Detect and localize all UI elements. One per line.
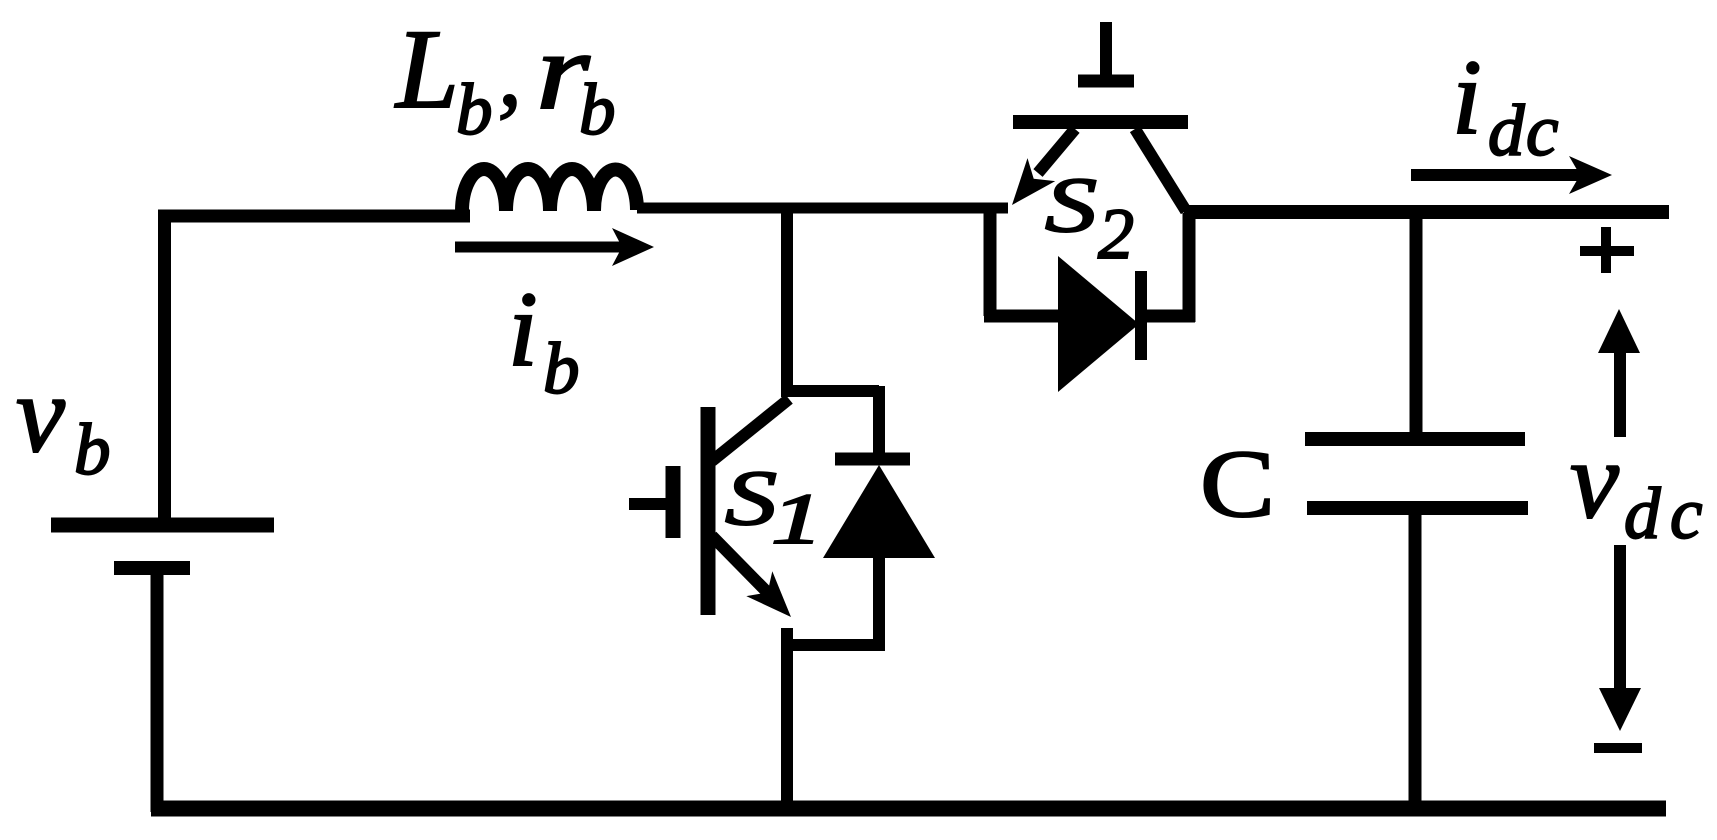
transistor S1 collector diagonal [712, 399, 789, 461]
arrow v_dc up (head) [1598, 309, 1640, 353]
diode D1 bottom lead [873, 554, 885, 651]
arrow v_dc down (shaft) [1614, 545, 1626, 693]
wire bottom rail [151, 801, 1666, 817]
label i_b [508, 271, 580, 409]
diode D2 right lead vertical [1183, 213, 1196, 322]
label v_b [16, 353, 111, 490]
transistor S1 body bar [701, 407, 716, 615]
capacitor C top lead [1410, 213, 1423, 439]
label v_dc [1570, 419, 1702, 554]
label C [1200, 430, 1275, 537]
svg-text:d: d [1488, 90, 1525, 171]
transistor S2 gate bar [1078, 75, 1134, 88]
transistor S1 gate lead [629, 498, 667, 510]
diode D1 cathode bar [835, 453, 910, 466]
arrow v_dc up (shaft) [1614, 348, 1626, 437]
capacitor C bottom plate [1307, 501, 1528, 515]
wire S1 bottom jog [781, 639, 885, 651]
transistor S1 gate bar [666, 466, 681, 538]
svg-text:b: b [579, 69, 616, 150]
diode D2 bottom horizontal right [1141, 310, 1195, 323]
diode D1 triangle [823, 465, 935, 558]
wire S2 to top-right [1184, 205, 1669, 219]
capacitor C bottom lead [1409, 508, 1422, 812]
label L_b, r_b [394, 7, 616, 150]
arrow i_dc (shaft) [1411, 169, 1582, 181]
inductor L_b coil [462, 169, 637, 211]
svg-text:i: i [1452, 39, 1482, 157]
svg-text:v: v [1570, 419, 1619, 541]
arrow i_b (head) [612, 228, 654, 266]
battery v_b long plate (+) [51, 518, 274, 533]
wire inductor to S2 [637, 203, 1008, 214]
svg-text:v: v [16, 353, 65, 475]
label i_dc [1452, 39, 1558, 171]
svg-text:2: 2 [1098, 194, 1134, 274]
transistor S2 collector diagonal [1135, 129, 1186, 211]
arrow i_b (shaft) [455, 242, 624, 253]
svg-text:C: C [1200, 430, 1275, 537]
transistor S2 emitter arrowhead [1012, 158, 1055, 205]
svg-text:c: c [1670, 473, 1702, 554]
svg-text:b: b [456, 69, 493, 150]
wire S1 emitter vertical to bottom rail [781, 628, 793, 812]
wire left vertical (battery positive lead) [158, 210, 171, 518]
svg-text:S: S [1045, 161, 1097, 248]
wire battery negative lead down [151, 568, 164, 812]
diode D2 bottom horizontal left [984, 310, 1058, 323]
svg-text:S: S [725, 454, 777, 541]
svg-text:b: b [543, 328, 580, 409]
wire S1 collector branch vertical [781, 213, 793, 396]
battery v_b short plate (-) [114, 561, 190, 575]
wire S1 top jog to diode [781, 385, 879, 397]
minus sign [1594, 743, 1642, 753]
wire top-left horizontal (battery + to inductor) [158, 210, 470, 223]
svg-text:d: d [1624, 473, 1661, 554]
transistor S1 emitter diagonal [712, 536, 770, 595]
label S2 [1045, 161, 1134, 274]
label S1 [725, 454, 823, 559]
diode D2 triangle [1058, 256, 1139, 392]
diode D2 left lead vertical [984, 207, 997, 316]
transistor S2 body bar [1013, 115, 1188, 129]
diode D1 top lead [873, 386, 885, 456]
svg-text:,: , [498, 20, 522, 126]
arrow v_dc down (head) [1599, 688, 1641, 731]
svg-text:1: 1 [771, 479, 823, 559]
svg-text:c: c [1526, 90, 1558, 171]
diode D2 cathode bar [1135, 271, 1147, 360]
transistor S2 gate stub [1100, 22, 1112, 76]
arrow i_dc (head) [1569, 156, 1612, 194]
transistor S1 emitter arrowhead [746, 571, 791, 617]
capacitor C top plate [1305, 432, 1525, 446]
plus sign [1580, 227, 1634, 273]
svg-text:b: b [74, 409, 111, 490]
svg-text:i: i [508, 271, 538, 389]
transistor S2 emitter diagonal [1038, 129, 1075, 173]
svg-text:L: L [394, 7, 459, 132]
